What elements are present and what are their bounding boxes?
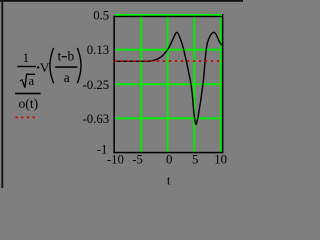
plot border top bbox=[113, 16, 222, 17]
legend: trace1 solid line sample bbox=[15, 93, 40, 95]
plot border left bbox=[113, 16, 115, 153]
svg-text:t: t bbox=[167, 174, 171, 188]
svg-text:-10: -10 bbox=[107, 153, 124, 167]
svg-text:a: a bbox=[28, 73, 34, 88]
legend: multiply dot bbox=[37, 66, 39, 68]
svg-text:-1: -1 bbox=[97, 142, 108, 156]
svg-text:-0.63: -0.63 bbox=[83, 112, 110, 126]
frame top edge bbox=[0, 0, 243, 2]
gridline vertical t=-5 bbox=[140, 16, 142, 152]
svg-text:a: a bbox=[64, 70, 70, 85]
svg-text:b: b bbox=[68, 48, 75, 63]
gridline horizontal y=-0.63 bbox=[115, 117, 222, 119]
legend: radical sign of sqrt(a) bbox=[20, 74, 35, 87]
svg-text:-0.25: -0.25 bbox=[83, 78, 110, 92]
gridline horizontal y=-0.25 bbox=[115, 83, 222, 85]
legend: minus of numerator bbox=[62, 56, 67, 57]
trace1: black wavelet curve bbox=[115, 32, 222, 124]
plot border bottom bbox=[113, 152, 222, 154]
legend: fraction bar of 1/sqrt(a) bbox=[17, 66, 36, 67]
svg-text:10: 10 bbox=[214, 153, 227, 167]
svg-text:0.5: 0.5 bbox=[93, 8, 109, 22]
legend: inner fraction bar bbox=[55, 66, 77, 68]
gridline vertical t=10 (right, green) bbox=[220, 14, 222, 152]
gridline vertical t=5 bbox=[193, 16, 195, 152]
legend: open paren bbox=[50, 48, 54, 83]
svg-text:1: 1 bbox=[23, 50, 30, 65]
svg-text:0.13: 0.13 bbox=[87, 43, 109, 57]
svg-text:5: 5 bbox=[192, 153, 198, 167]
trace2: red dotted horizontal line at y=0 bbox=[115, 60, 222, 62]
gridline horizontal y=0.13 bbox=[115, 49, 222, 51]
svg-text:V: V bbox=[40, 60, 50, 75]
plot border right bbox=[222, 14, 224, 153]
gridline vertical t=0 bbox=[167, 16, 169, 152]
legend: close paren bbox=[77, 48, 81, 83]
gridline horizontal y=0.5 (top, green) bbox=[115, 14, 222, 16]
svg-text:o(t): o(t) bbox=[19, 96, 39, 112]
legend: trace2 red dotted sample bbox=[15, 116, 35, 118]
svg-text:t: t bbox=[58, 48, 62, 63]
frame left edge bbox=[1, 0, 3, 188]
svg-text:0: 0 bbox=[166, 153, 172, 167]
svg-text:-5: -5 bbox=[132, 153, 143, 167]
